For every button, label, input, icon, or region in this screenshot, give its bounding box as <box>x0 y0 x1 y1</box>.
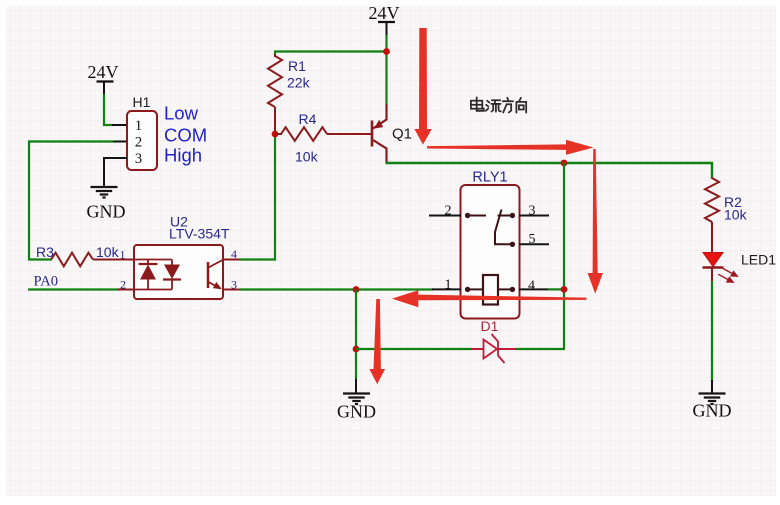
arrow: current left through coil <box>392 290 587 307</box>
wire H1 pin2 to R3 <box>29 142 113 260</box>
svg-text:Q1: Q1 <box>392 126 412 143</box>
relay armature <box>495 210 510 245</box>
relay pin 2 <box>429 215 461 217</box>
wire U2 pin3 to relay pin1 <box>239 288 433 290</box>
wire U2 pin3 stub <box>222 289 240 291</box>
wire relay pin4 to branch <box>548 288 564 290</box>
ground (H1) <box>91 186 118 188</box>
svg-text:LED1: LED1 <box>741 252 776 268</box>
U2 phototransistor <box>207 262 210 288</box>
arrow: current down to relay coil <box>588 149 603 294</box>
svg-text:10k: 10k <box>96 244 120 260</box>
svg-text:5: 5 <box>529 232 536 247</box>
U2 internal input rails <box>134 259 172 261</box>
connector H1 pins <box>112 124 128 126</box>
svg-text:LTV-354T: LTV-354T <box>169 226 230 242</box>
wire 24V to H1 pin1 <box>104 94 113 125</box>
relay pin 3 <box>519 215 549 217</box>
svg-text:10k: 10k <box>724 207 748 223</box>
Q1 collector <box>373 140 387 163</box>
wire H1 pin3 to ground <box>104 158 127 187</box>
wire D1 left <box>356 348 472 350</box>
junction relay pin4 <box>561 286 568 293</box>
resistor R2 <box>705 178 719 222</box>
svg-text:D1: D1 <box>481 318 499 334</box>
svg-text:GND: GND <box>693 401 732 421</box>
svg-text:24V: 24V <box>88 62 119 82</box>
svg-text:R3: R3 <box>36 244 54 260</box>
svg-text:2: 2 <box>445 204 452 219</box>
svg-text:2: 2 <box>120 278 126 292</box>
transistor Q1 base bar <box>371 121 374 147</box>
relay switch contact NO <box>510 242 515 247</box>
relay pin 1 <box>432 288 461 290</box>
wire U2 pin4 stub <box>222 259 240 261</box>
junction main rail / relay branch <box>561 160 568 167</box>
arrow: current down into Q1 <box>414 28 431 145</box>
junction D1 branch <box>353 346 360 353</box>
relay switch contact NC <box>510 213 515 218</box>
svg-text:1: 1 <box>135 118 142 134</box>
wire D1 right <box>498 348 516 350</box>
wire branch down to relay pin4 / D1 <box>563 163 565 349</box>
Q1 emitter <box>373 104 387 129</box>
wire PA0 to U2 pin2 <box>28 288 120 290</box>
U2 LED diode down <box>171 260 173 265</box>
svg-text:4: 4 <box>528 279 535 294</box>
annotation: current direction (Chinese) <box>471 97 526 112</box>
optocoupler U2 body <box>134 245 223 299</box>
relay pin 5 <box>519 243 549 245</box>
diode D1 (TVS) <box>484 340 498 359</box>
svg-text:1: 1 <box>445 278 452 293</box>
svg-text:24V: 24V <box>369 3 400 23</box>
relay switch common <box>465 213 470 218</box>
LED1 diode <box>703 253 723 267</box>
wire Q1 collector to R2 (main rail) <box>386 163 713 179</box>
svg-text:3: 3 <box>135 151 142 167</box>
junction 24V node <box>383 48 390 55</box>
arrow: current right along rail <box>427 140 594 155</box>
resistor R3 <box>51 253 93 267</box>
wire node down to ground <box>355 290 357 381</box>
wire 24V node to R1 <box>275 52 387 56</box>
relay coil <box>483 275 498 305</box>
Q1 emitter arrow (PNP) <box>374 120 383 129</box>
H1 pin numbers 1 2 3 <box>135 118 142 167</box>
svg-text:2: 2 <box>135 135 142 151</box>
wire R2 to LED1 <box>711 222 713 253</box>
svg-text:R1: R1 <box>288 58 306 74</box>
svg-text:RLY1: RLY1 <box>472 170 507 186</box>
svg-text:3: 3 <box>529 204 536 219</box>
connector H1 body <box>127 111 157 170</box>
wire U2 pin4 to R1/R4 node <box>239 134 275 260</box>
ground (LED branch) <box>699 392 726 394</box>
U2 LED diode up <box>147 260 149 265</box>
svg-text:Low: Low <box>164 103 199 124</box>
junction U2 pin3 node <box>353 286 360 293</box>
svg-text:GND: GND <box>87 202 126 222</box>
wire R3 to U2 pin1 <box>93 259 135 261</box>
svg-text:R4: R4 <box>299 111 317 127</box>
resistor R1 <box>268 56 282 107</box>
junction R1/R4 <box>272 131 279 138</box>
resistor R4 <box>281 127 327 141</box>
svg-text:COM: COM <box>164 125 207 146</box>
LED1 emission arrows <box>718 268 737 282</box>
svg-text:22k: 22k <box>287 75 311 91</box>
svg-text:High: High <box>164 145 202 166</box>
svg-text:GND: GND <box>337 402 376 422</box>
svg-text:10k: 10k <box>295 149 319 165</box>
svg-text:1: 1 <box>120 248 126 262</box>
net names Low COM High <box>164 103 207 166</box>
ground (opto node) <box>343 392 370 394</box>
relay pin 4 <box>519 288 549 290</box>
wire LED1 to ground <box>711 268 713 283</box>
svg-text:PA0: PA0 <box>34 274 58 290</box>
relay RLY1 body <box>461 185 520 319</box>
svg-text:H1: H1 <box>133 94 151 110</box>
arrow: current down to ground <box>369 299 385 384</box>
wire 24V down to Q1 emitter <box>385 35 387 105</box>
wire R4 to Q1 base <box>327 133 371 135</box>
